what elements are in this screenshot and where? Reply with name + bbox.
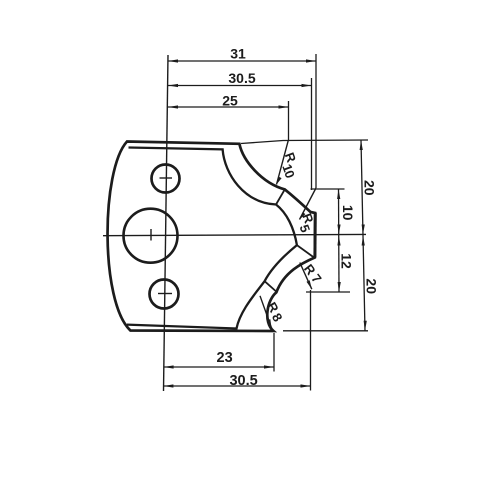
part outline (knife blade silhouette)	[108, 142, 316, 332]
dimension line 30.5 top	[168, 85, 312, 87]
arrows dim 31	[168, 59, 178, 62]
radius text R7	[301, 261, 325, 286]
svg-text:31: 31	[230, 46, 246, 62]
svg-text:25: 25	[222, 93, 238, 109]
radius text R8	[264, 299, 285, 324]
dimension line 31	[168, 60, 316, 62]
radius text R10	[279, 150, 299, 180]
hole top	[152, 165, 180, 193]
leader R5	[300, 188, 317, 220]
svg-text:20: 20	[361, 180, 377, 196]
svg-text:20: 20	[364, 278, 380, 294]
svg-text:30.5: 30.5	[228, 70, 255, 86]
ridge R7/R8 junction	[265, 281, 277, 291]
arrows dim 12	[337, 236, 340, 246]
dimension line 10 / 12 (shared vertical)	[338, 189, 341, 292]
arrowhead leader R5	[300, 212, 306, 219]
dimension line 25	[168, 106, 289, 108]
arrows dim 23	[164, 365, 174, 368]
ridge R10/R5 junction	[276, 189, 285, 204]
extension line 30.5 right	[311, 78, 313, 190]
extension line y292 (12 dim)	[306, 291, 350, 293]
large bore	[124, 209, 178, 263]
arrows dim 25	[168, 105, 178, 108]
tick bottom hole	[158, 293, 172, 295]
extension line 25 right	[288, 101, 290, 141]
arrows dim 30.5 bottom	[163, 384, 173, 387]
dimension line 23	[164, 366, 274, 368]
extension line 31 right	[315, 54, 317, 188]
extension line 23 right	[273, 333, 275, 372]
leader R10	[277, 141, 289, 185]
hole bottom	[150, 280, 179, 309]
svg-text:5: 5	[297, 222, 314, 234]
arrows dim 30.5 top	[168, 84, 178, 87]
svg-text:23: 23	[217, 350, 233, 366]
vertical centerline	[164, 55, 169, 391]
bevel heel line (inner profile)	[127, 148, 297, 329]
dimension line 30.5 bottom	[163, 385, 310, 387]
tick top hole	[160, 177, 173, 179]
arrows dim 20 bottom	[362, 236, 365, 246]
radius text R5	[297, 211, 317, 234]
tick large bore	[150, 229, 152, 241]
extension line bottom edge to right	[283, 330, 368, 332]
extension line y189 (10 dim)	[311, 188, 345, 190]
svg-text:12: 12	[338, 253, 354, 269]
arrows dim 20 top	[360, 140, 363, 150]
land thickening	[313, 213, 316, 258]
leader R8	[260, 296, 272, 328]
leader R7	[300, 263, 312, 290]
svg-text:30.5: 30.5	[229, 373, 257, 389]
arrowhead leader R7	[307, 280, 312, 289]
arrows dim 10	[337, 189, 340, 199]
extension line 30.5 bottom right	[310, 290, 312, 391]
arrowhead leader R10	[277, 177, 282, 185]
extension line top edge to right	[241, 140, 368, 144]
horizontal centerline	[103, 234, 366, 235]
arrowhead leader R8	[267, 319, 272, 328]
dimension line 20 top / 20 bottom (shared vertical)	[361, 140, 365, 331]
ridge land/R7 junction	[297, 245, 314, 257]
svg-text:10: 10	[340, 205, 356, 221]
